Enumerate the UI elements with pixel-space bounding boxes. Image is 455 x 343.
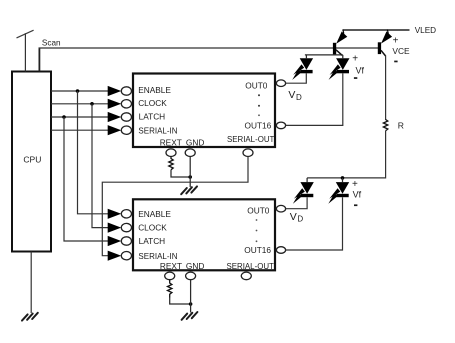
pin arrow CLOCK U1 bbox=[108, 99, 122, 109]
wire CLOCK U1 bbox=[51, 103, 108, 105]
pin circle OUT16 U1 bbox=[276, 122, 285, 129]
node slash mark on row stub bbox=[17, 30, 34, 38]
pin circle CLOCK U1 bbox=[121, 100, 131, 108]
wire anode rail upper LEDs bbox=[305, 54, 343, 56]
svg-text:D: D bbox=[297, 215, 303, 224]
pin circle OUT0 U1 bbox=[276, 80, 285, 87]
transistor Q2 bbox=[378, 30, 392, 57]
pin circle ENABLE U2 bbox=[121, 210, 131, 218]
pin arrow CLOCK U2 bbox=[108, 223, 122, 233]
LED driver IC U2 body bbox=[133, 199, 275, 270]
pin arrow LATCH U1 bbox=[108, 112, 122, 122]
wire CLOCK branch to U2 bbox=[92, 104, 108, 228]
ground (CPU) bbox=[22, 313, 38, 321]
pin circle LATCH U1 bbox=[121, 113, 131, 121]
svg-text:SERIAL-OUT: SERIAL-OUT bbox=[227, 262, 275, 271]
pin circle SERIAL-IN U1 bbox=[121, 126, 131, 134]
pin circle REXT U1 bbox=[166, 149, 176, 157]
wire D2 cathode to OUT16 U1 bbox=[286, 73, 343, 125]
wire D3 cathode to OUT0 U2 bbox=[286, 197, 308, 209]
node ellipsis dots OUT1..OUT15 U2 bbox=[256, 219, 258, 242]
LED D4 (Vf lower) bbox=[328, 178, 349, 204]
wire R to lower LED rail bbox=[307, 131, 386, 178]
resistor REXT U2 bbox=[168, 280, 172, 298]
ground (U2) bbox=[182, 312, 198, 320]
svg-text:REXT: REXT bbox=[160, 137, 182, 147]
svg-text:V: V bbox=[288, 89, 295, 101]
node ellipsis dots OUT1..OUT15 U1 bbox=[258, 94, 260, 116]
svg-text:Vf: Vf bbox=[353, 189, 362, 199]
svg-text:OUT16: OUT16 bbox=[244, 245, 271, 255]
wire Q2 collector to resistor R bbox=[385, 56, 387, 121]
pin circle SERIAL-IN U2 bbox=[121, 252, 131, 260]
pin circle REXT U2 bbox=[165, 272, 175, 280]
node VCE minus label bbox=[394, 61, 397, 63]
pin circle OUT0 U2 bbox=[276, 205, 285, 212]
wire scan row stub (other rows) bbox=[24, 33, 26, 71]
wire LATCH branch to U2 bbox=[64, 117, 108, 241]
wire D1 cathode to OUT0 U1 bbox=[286, 73, 307, 83]
svg-text:VCE: VCE bbox=[392, 46, 410, 56]
CPU block bbox=[12, 72, 51, 252]
pin circle ENABLE U1 bbox=[121, 87, 131, 95]
wire REXT to GND net U2 bbox=[170, 298, 191, 305]
wire LATCH U1 bbox=[51, 116, 108, 118]
svg-text:CLOCK: CLOCK bbox=[138, 98, 167, 108]
svg-text:+: + bbox=[352, 54, 358, 65]
svg-text:Vf: Vf bbox=[356, 65, 365, 75]
LED driver IC U1 body bbox=[133, 74, 275, 148]
svg-text:R: R bbox=[398, 121, 404, 131]
junction REXT-GND U1 bbox=[188, 175, 192, 179]
pin circle GND U2 bbox=[186, 272, 196, 280]
wire SERIAL-IN U1 bbox=[51, 129, 108, 131]
junction REXT-GND U2 bbox=[189, 302, 193, 306]
junction LATCH bus bbox=[62, 115, 66, 119]
svg-text:GND: GND bbox=[186, 137, 204, 147]
pin arrow LATCH U2 bbox=[108, 236, 122, 246]
resistor R bbox=[383, 120, 387, 131]
ground (U1) bbox=[181, 186, 197, 194]
svg-text:OUT0: OUT0 bbox=[245, 81, 268, 91]
resistor REXT U1 bbox=[169, 157, 173, 170]
wire ENABLE branch to U2 bbox=[78, 91, 109, 214]
wire CPU ground lead bbox=[30, 252, 32, 314]
pin circle SERIAL-OUT U2 bbox=[241, 272, 251, 280]
transistor Q1 bbox=[333, 30, 347, 56]
wire Scan vertical from CPU bbox=[38, 48, 40, 72]
LED D2 (Vf upper) bbox=[329, 55, 350, 80]
pin arrow ENABLE U1 bbox=[108, 86, 122, 96]
svg-text:GND: GND bbox=[186, 261, 204, 271]
wire REXT to GND net U1 bbox=[171, 170, 190, 177]
junction CLOCK bus bbox=[90, 102, 94, 106]
svg-text:SERIAL-IN: SERIAL-IN bbox=[138, 252, 177, 261]
junction ENABLE bus bbox=[76, 89, 80, 93]
svg-text:V: V bbox=[290, 211, 297, 223]
svg-text:LATCH: LATCH bbox=[139, 236, 166, 246]
pin circle CLOCK U2 bbox=[121, 223, 131, 231]
pin arrow SERIAL-IN U2 bbox=[108, 251, 122, 261]
pin circle SERIAL-OUT U1 bbox=[243, 149, 253, 157]
LED D1 (VD upper) bbox=[292, 55, 313, 80]
svg-text:Scan: Scan bbox=[42, 38, 61, 47]
wire GND lead U1 bbox=[189, 157, 191, 188]
svg-text:CLOCK: CLOCK bbox=[138, 223, 167, 233]
svg-text:CPU: CPU bbox=[23, 154, 41, 164]
node Vf minus label upper bbox=[354, 77, 357, 79]
svg-text:+: + bbox=[393, 36, 399, 47]
svg-text:LATCH: LATCH bbox=[139, 112, 166, 122]
pin arrow SERIAL-IN U1 bbox=[108, 125, 122, 135]
svg-text:OUT16: OUT16 bbox=[245, 120, 272, 130]
pin circle OUT16 U2 bbox=[276, 247, 285, 254]
wire D4 cathode to OUT16 U2 bbox=[286, 197, 343, 250]
node Vf minus label lower bbox=[354, 204, 357, 206]
svg-text:SERIAL-OUT: SERIAL-OUT bbox=[227, 135, 275, 144]
wire Scan rail to transistor bases bbox=[39, 47, 380, 49]
wire GND lead U2 bbox=[190, 280, 192, 313]
svg-text:SERIAL-IN: SERIAL-IN bbox=[138, 127, 177, 136]
svg-text:ENABLE: ENABLE bbox=[138, 209, 171, 219]
pin arrow ENABLE U2 bbox=[108, 209, 122, 219]
svg-text:ENABLE: ENABLE bbox=[138, 85, 171, 95]
pin circle LATCH U2 bbox=[121, 237, 131, 245]
svg-text:OUT0: OUT0 bbox=[247, 205, 270, 215]
svg-text:REXT: REXT bbox=[160, 261, 182, 271]
svg-text:VLED: VLED bbox=[415, 26, 436, 35]
wire VLED rail bbox=[343, 29, 410, 31]
LED D3 (VD lower) bbox=[293, 178, 314, 204]
svg-text:+: + bbox=[352, 179, 358, 190]
svg-text:D: D bbox=[296, 93, 302, 102]
pin circle GND U1 bbox=[185, 149, 195, 157]
junction lower LED rail bbox=[341, 176, 345, 180]
wire SERIAL-OUT U1 to SERIAL-IN U2 bbox=[102, 157, 248, 256]
wire ENABLE U1 bbox=[51, 90, 108, 92]
